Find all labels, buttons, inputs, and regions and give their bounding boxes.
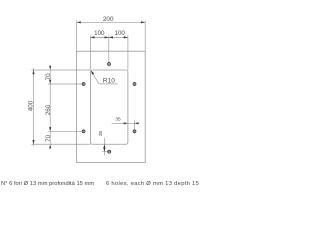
extension line inner bottom edge extended left <box>32 143 91 145</box>
extension line hole row 1 (left) <box>48 83 82 85</box>
svg-text:35: 35 <box>115 117 121 123</box>
arrow 100 right end <box>124 36 128 38</box>
arrow 70 bottom seg <box>49 144 51 148</box>
arrow R10 leader <box>91 71 94 75</box>
dimension line 400 <box>33 68 35 146</box>
hole tick left row2 <box>83 129 85 133</box>
inner opening rounded rect <box>90 70 128 144</box>
arrow 100 left end <box>90 36 94 38</box>
centerline top hole (for 100 dim) <box>108 35 110 63</box>
dimension line 35 vertical <box>103 138 105 156</box>
hole tick bottom-center <box>107 151 111 153</box>
arrow 35 vertical at hole row <box>103 148 105 152</box>
arrow 200 right <box>141 21 145 23</box>
extension line inner left edge extended up (for 100 dim) <box>89 35 91 70</box>
hole tick top-center <box>108 63 110 65</box>
extension line inner right edge extended up (for 100 dim) <box>127 35 129 70</box>
dimension line 200 <box>77 21 146 23</box>
extension line hole row 2 (left) <box>48 130 82 132</box>
outer plate outline <box>77 51 146 162</box>
holes (6x) <box>82 63 136 154</box>
svg-text:70: 70 <box>45 73 52 81</box>
arrow 35 horizontal at hole column <box>135 122 139 124</box>
dimension line 100 100 <box>90 36 128 38</box>
arrowheads <box>32 21 145 152</box>
arrow 400 top <box>32 70 34 74</box>
svg-text:N° 6 fori Ø 13 mm profondità 1: N° 6 fori Ø 13 mm profondità 15 mm <box>1 181 94 187</box>
svg-text:70: 70 <box>45 134 52 142</box>
dimension line 70/260/70 <box>49 70 51 144</box>
hole tick right row2 <box>134 129 136 133</box>
arrow 100 center left <box>105 36 109 38</box>
arrow 400 bottom <box>32 140 34 144</box>
svg-text:200: 200 <box>103 16 114 23</box>
svg-text:400: 400 <box>28 100 35 111</box>
svg-text:100: 100 <box>115 30 126 37</box>
arrow 70 top seg lower / 260 top <box>49 80 51 84</box>
svg-text:35: 35 <box>98 131 104 137</box>
hole left row2 <box>82 130 85 133</box>
hole right row1 <box>133 83 136 86</box>
svg-text:100: 100 <box>94 30 105 37</box>
extension line inner top edge extended left (for 400 / 70 dims) <box>32 69 91 71</box>
arrow 35 horizontal at inner edge <box>124 122 128 124</box>
extension line outer left corner (for 200 dim) <box>76 20 78 51</box>
hole left row1 <box>82 83 85 86</box>
arrow 70 top seg upper <box>49 66 51 70</box>
svg-text:R10: R10 <box>103 77 115 84</box>
dimension line 35 horizontal <box>112 122 138 124</box>
hole bottom-center <box>108 150 111 153</box>
hole top-center <box>108 63 111 66</box>
svg-text:260: 260 <box>45 104 52 115</box>
R10 leader line <box>91 71 118 84</box>
arrow 35 vertical at inner bottom edge <box>103 144 105 148</box>
centerline right bottom hole vertical tick <box>134 121 136 130</box>
arrow 200 left <box>77 21 81 23</box>
arrow 260 bottom <box>49 127 51 131</box>
hole tick right row1 <box>134 82 136 86</box>
dimension texts <box>28 16 126 142</box>
arrow 100 center right <box>109 36 113 38</box>
svg-text:6 holes, each Ø mm 13 depth 15: 6 holes, each Ø mm 13 depth 15 <box>106 181 199 187</box>
hole tick left row1 <box>83 82 85 86</box>
tick hole bottom-center row <box>102 151 108 153</box>
extension line outer right corner (for 200 dim) <box>144 20 146 51</box>
hole right row2 <box>133 130 136 133</box>
